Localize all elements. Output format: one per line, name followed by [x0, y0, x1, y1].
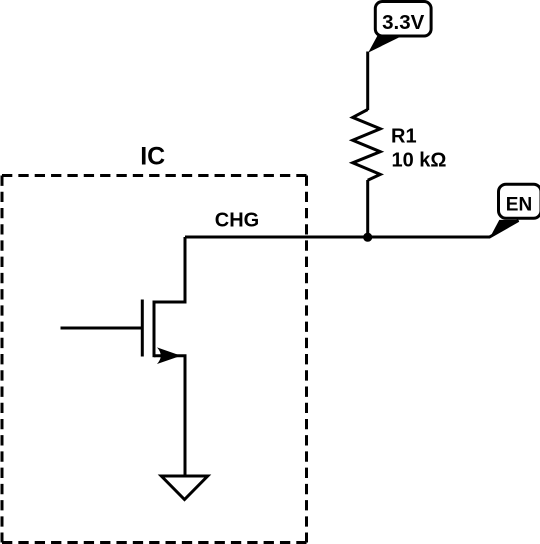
svg-text:EN: EN [506, 195, 532, 216]
svg-text:IC: IC [140, 143, 165, 171]
wire R1 to node [366, 180, 369, 237]
svg-text:CHG: CHG [215, 209, 259, 231]
transistor Q1 drain lead / wire to CHG [154, 237, 185, 302]
svg-text:10 kΩ: 10 kΩ [392, 150, 447, 172]
svg-text:3.3V: 3.3V [382, 11, 424, 34]
transistor Q1 source lead [154, 356, 185, 360]
wire CHG net horizontal [185, 220, 519, 237]
IC boundary dashed box [2, 176, 307, 543]
node junction dot [363, 233, 372, 242]
resistor R1 [353, 110, 381, 181]
svg-text:R1: R1 [391, 125, 417, 147]
net flag EN [490, 184, 540, 237]
transistor Q1 NMOS gate lead [61, 327, 143, 330]
power flag 3.3V [368, 2, 431, 53]
wire source to ground [184, 356, 187, 475]
transistor Q1 channel bar [153, 301, 156, 358]
transistor Q1 gate bar [141, 300, 144, 357]
wire 3.3V flag to resistor R1 [366, 52, 369, 111]
ground symbol [161, 476, 207, 500]
transistor Q1 source arrow [157, 347, 181, 364]
